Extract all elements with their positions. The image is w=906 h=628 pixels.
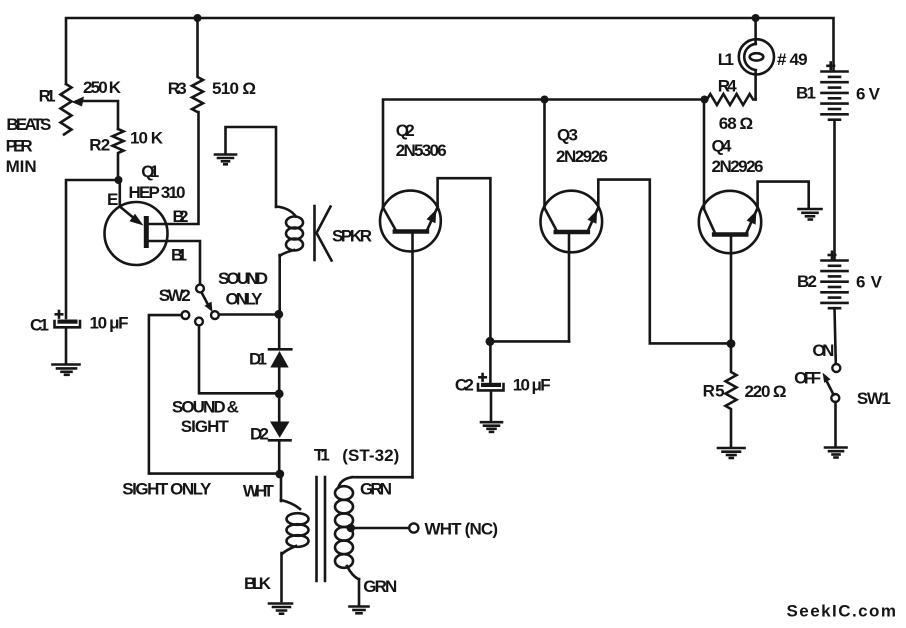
C2 plus sign: [479, 374, 485, 381]
wire B2 to SW1: [835, 308, 836, 364]
node WHT junction: [275, 470, 284, 479]
svg-text:E: E: [107, 190, 118, 209]
svg-text:(ST-32): (ST-32): [342, 446, 399, 465]
svg-text:B1: B1: [171, 246, 187, 265]
svg-text:6 V: 6 V: [856, 85, 881, 104]
wire node to C1: [66, 180, 119, 318]
wire B1 to B2: [833, 120, 836, 260]
ground T1 primary (dotted): [269, 604, 294, 614]
svg-text:SW1: SW1: [857, 389, 891, 408]
svg-text:D2: D2: [250, 425, 269, 444]
svg-text:10 K: 10 K: [130, 129, 164, 148]
svg-text:B2: B2: [797, 272, 817, 291]
svg-text:Q3: Q3: [557, 125, 578, 144]
C1 plus sign: [56, 311, 62, 318]
label T1 (ST-32): [314, 446, 399, 466]
wire collector rail y=99.5: [383, 100, 707, 208]
wire Q3 emitter to R5 node: [598, 180, 731, 344]
resistor R5 220 ohm: [726, 343, 737, 446]
lamp L1 #49: [739, 18, 774, 100]
svg-text:R3: R3: [168, 79, 187, 98]
wire SW2 to SOUND ONLY node: [219, 313, 279, 316]
R1 wiper arrow: [72, 97, 119, 130]
label BEATS PER MIN: [6, 115, 52, 176]
ground SW1: [825, 448, 847, 458]
svg-text:SW2: SW2: [159, 286, 191, 305]
transistor Q3 2N2926: [541, 191, 603, 253]
svg-text:D1: D1: [249, 350, 267, 369]
wire Q4 base down: [730, 237, 733, 343]
node SOUND ONLY junction: [274, 310, 283, 319]
battery B2 6V: [822, 261, 848, 309]
svg-text:220 Ω: 220 Ω: [745, 382, 787, 401]
svg-text:SOUND &: SOUND &: [172, 398, 239, 417]
wire Q3 base down: [568, 234, 571, 341]
wire Q2 base to T1 secondary: [411, 234, 414, 478]
svg-text:2N2926: 2N2926: [712, 157, 764, 176]
wire Q2 emitter to C2 node: [438, 178, 491, 341]
ground T1 secondary: [350, 607, 369, 614]
switch SW2: [182, 285, 219, 326]
svg-text:Q2: Q2: [396, 121, 415, 140]
transistor Q1 HEP 310 (UJT): [105, 180, 168, 265]
battery B1 6V: [822, 72, 848, 120]
svg-text:T1: T1: [314, 446, 330, 465]
svg-text:WHT (NC): WHT (NC): [425, 520, 499, 539]
svg-text:SIGHT ONLY: SIGHT ONLY: [122, 480, 212, 499]
diode D1: [269, 314, 291, 394]
svg-text:B1: B1: [796, 83, 816, 102]
wire SW2 to SOUND & SIGHT node: [199, 326, 279, 394]
ground R5: [718, 448, 745, 458]
svg-text:WHT: WHT: [243, 482, 275, 501]
resistor R4 68 ohm: [707, 94, 756, 105]
svg-text:C1: C1: [30, 316, 49, 335]
svg-text:SPKR: SPKR: [332, 227, 372, 246]
svg-text:C2: C2: [455, 376, 474, 395]
ground SPKR branch: [215, 127, 276, 207]
node T1 center tap: [347, 524, 355, 532]
resistor R2 10K: [113, 129, 124, 180]
B1 plus sign: [828, 63, 835, 70]
label SOUND ONLY: [218, 269, 268, 308]
svg-text:250 K: 250 K: [83, 78, 122, 97]
wire top supply rail: [66, 18, 834, 84]
wire Q1 B1 to SW2: [148, 241, 200, 285]
ground Q4 emitter: [799, 209, 822, 220]
svg-text:R4: R4: [718, 77, 738, 96]
capacitor C2 10uF: [478, 341, 504, 420]
transformer T1 core: [317, 477, 326, 581]
node top rail / R3 junction: [194, 14, 202, 22]
svg-text:6 V: 6 V: [856, 273, 883, 292]
node rail / Q4 collector / R4: [701, 96, 709, 104]
wire center tap to WHT (NC): [351, 527, 409, 530]
svg-text:R1: R1: [39, 87, 56, 106]
node R2 / C1 / Q1-E junction: [115, 176, 123, 184]
ground C1: [53, 365, 80, 375]
transformer T1 primary winding: [281, 474, 309, 601]
svg-text:10 μF: 10 μF: [90, 314, 129, 333]
svg-text:2N5306: 2N5306: [396, 141, 447, 160]
svg-text:ON: ON: [812, 341, 834, 360]
svg-text:Q4: Q4: [712, 137, 733, 156]
svg-text:2N2926: 2N2926: [556, 147, 608, 166]
resistor R1 (potentiometer 250K): [61, 84, 72, 135]
wire Q3 collector: [543, 100, 546, 209]
svg-text:R2: R2: [89, 136, 110, 155]
transistor Q4 2N2926: [699, 191, 761, 253]
svg-text:GRN: GRN: [363, 577, 397, 596]
svg-text:SOUND: SOUND: [218, 269, 268, 288]
transistor Q2 2N5306: [380, 191, 441, 252]
node C2 junction: [486, 337, 495, 346]
speaker SPKR coil: [276, 207, 303, 315]
resistor R3 510 ohm: [192, 18, 203, 112]
svg-text:MIN: MIN: [6, 157, 37, 176]
svg-text:R5: R5: [703, 382, 725, 401]
speaker SPKR magnet: [315, 206, 332, 261]
svg-text:10 μF: 10 μF: [513, 376, 551, 395]
svg-text:L1: L1: [718, 50, 734, 69]
diode D2: [269, 394, 291, 474]
svg-text:BEATS: BEATS: [6, 115, 51, 134]
switch SW1: [823, 364, 841, 446]
svg-text:HEP 310: HEP 310: [129, 183, 186, 202]
wire Q1 B2 to R3: [148, 112, 199, 224]
svg-text:OFF: OFF: [794, 369, 821, 388]
svg-text:ONLY: ONLY: [226, 289, 264, 308]
svg-text:Q1: Q1: [141, 162, 159, 181]
label SOUND & SIGHT: [172, 398, 239, 436]
svg-text:GRN: GRN: [360, 480, 392, 499]
node top rail / L1 junction: [752, 14, 760, 22]
node D1/D2 junction: [275, 389, 284, 398]
svg-text:510 Ω: 510 Ω: [212, 79, 256, 98]
wire Q4 emitter to ground: [758, 182, 809, 208]
svg-text:BLK: BLK: [244, 574, 272, 593]
B2 plus sign: [829, 252, 835, 258]
ground C2: [481, 422, 502, 432]
svg-text:SIGHT: SIGHT: [181, 417, 230, 436]
wire SIGHT ONLY branch: [149, 315, 279, 474]
svg-text:68 Ω: 68 Ω: [719, 114, 753, 133]
svg-text:# 49: # 49: [777, 50, 808, 69]
terminal WHT (NC) open circle: [409, 523, 418, 532]
wire Q4 collector: [703, 100, 706, 209]
node rail / Q3 collector: [541, 96, 549, 104]
wire C2 node to Q3 base: [490, 340, 569, 343]
transformer T1 secondary winding: [335, 477, 413, 604]
node R5 / Q4 base junction: [727, 339, 736, 348]
svg-text:PER: PER: [6, 137, 33, 156]
capacitor C1 10uF: [55, 320, 81, 364]
